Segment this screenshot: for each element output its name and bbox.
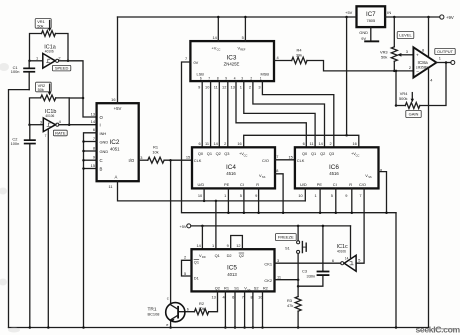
svg-text:5: 5 — [184, 271, 186, 276]
wire VR2 feedback loop — [30, 98, 41, 125]
svg-text:IC3: IC3 — [227, 54, 237, 61]
svg-text:5: 5 — [358, 258, 360, 263]
svg-text:6: 6 — [93, 127, 95, 132]
wire IC2 pin 15 — [84, 168, 97, 170]
svg-text:Q2: Q2 — [216, 151, 221, 156]
svg-text:10: 10 — [298, 193, 303, 198]
svg-text:CLK: CLK — [297, 158, 305, 163]
node S1 +5V tap — [297, 225, 300, 228]
potentiometer VR3 — [393, 17, 395, 47]
wire R1 to IC4 CLK — [164, 159, 192, 161]
wire C1 to 0V rail — [9, 90, 30, 328]
svg-text:8: 8 — [217, 77, 219, 81]
wire IC5 Q2 to R2 resistor — [209, 291, 218, 311]
svg-text:3: 3 — [258, 84, 260, 89]
op-amp U3 IC1c inverter — [344, 255, 356, 271]
svg-text:R1: R1 — [224, 286, 229, 291]
svg-text:2: 2 — [250, 77, 252, 81]
svg-text:500k: 500k — [399, 96, 407, 101]
svg-text:6: 6 — [232, 295, 234, 300]
wire S1 to freeze node — [297, 254, 299, 297]
svg-text:14: 14 — [318, 141, 323, 146]
wire DAC bit3 IC3 to IC4 Q2 — [218, 81, 220, 147]
svg-text:1: 1 — [36, 56, 38, 61]
wire IC2 pin 9 — [84, 159, 97, 161]
svg-text:10k: 10k — [152, 150, 158, 155]
svg-text:330n: 330n — [307, 274, 316, 279]
node C2 rail junction — [29, 326, 32, 329]
node CLK freeze junction — [169, 159, 172, 162]
OUTPUT label — [435, 48, 455, 54]
wire IC1a output branch to VR2 top — [69, 97, 83, 99]
svg-text:15: 15 — [186, 154, 190, 159]
svg-text:50k: 50k — [37, 23, 43, 28]
svg-text:1: 1 — [439, 55, 441, 60]
svg-text:6: 6 — [200, 77, 202, 81]
terminal output socket — [451, 61, 455, 65]
svg-text:+5V: +5V — [179, 224, 186, 229]
svg-text:100n: 100n — [11, 69, 20, 74]
svg-text:IN: IN — [387, 10, 391, 15]
wire TR1 emitter to 0V — [170, 322, 172, 328]
svg-text:S1: S1 — [285, 246, 290, 251]
scan smudges — [0, 63, 20, 333]
svg-text:14: 14 — [345, 256, 349, 260]
wire VR1 feedback loop — [30, 34, 42, 61]
wire IC5 CK1 to IC1c output — [275, 262, 341, 264]
svg-text:CK1: CK1 — [264, 261, 272, 266]
svg-text:Q3: Q3 — [329, 151, 334, 156]
wire IC3 pin 7 to ground bus — [182, 62, 397, 213]
VR1 wiper arrow — [49, 21, 51, 30]
svg-text:39k: 39k — [296, 52, 302, 57]
svg-text:LSB: LSB — [197, 72, 205, 77]
wire IC7 output down to counters — [346, 17, 348, 135]
VR1 resistance element — [42, 31, 56, 37]
node IC1a input junction — [28, 60, 31, 63]
svg-text:2: 2 — [224, 141, 226, 146]
wire +5V rail to IC2 pin 16 — [117, 17, 119, 103]
wire R4 to IC8a pin 2 summing line — [307, 61, 413, 71]
svg-text:R3: R3 — [287, 298, 292, 303]
svg-text:SS: SS — [368, 175, 372, 179]
wire IC1b input — [30, 124, 44, 126]
SPEED label — [52, 65, 70, 71]
svg-text:−: − — [416, 70, 419, 75]
svg-text:40106: 40106 — [337, 250, 346, 254]
svg-text:Q2: Q2 — [320, 151, 325, 156]
wire +5V to IC1c pin 14 — [350, 226, 352, 258]
svg-text:GND: GND — [100, 149, 109, 154]
svg-text:CC: CC — [217, 48, 221, 52]
wire IC6 UD pin 10 — [304, 188, 306, 201]
svg-text:R: R — [256, 182, 259, 187]
wire DAC bit8 IC3 to IC6 Q3 — [262, 81, 333, 147]
svg-text:7805: 7805 — [366, 18, 375, 23]
svg-text:C3: C3 — [302, 269, 307, 274]
svg-text:7: 7 — [359, 193, 361, 198]
op-amp IC8a — [413, 47, 436, 77]
wire DAC bit6 IC3 to IC6 Q1 — [244, 81, 315, 147]
IC7 GND pin — [370, 27, 372, 40]
node IC2 ground rail junction — [82, 326, 85, 329]
node ground drop rail junction — [395, 326, 398, 329]
GAIN label — [406, 110, 421, 117]
wire VR4 to output feedback — [420, 63, 446, 106]
svg-text:Q1: Q1 — [194, 259, 199, 264]
wire R3 to 0V rail — [297, 311, 299, 327]
svg-text:11: 11 — [277, 274, 281, 279]
wire IC1a output to IC2 pin 13 — [59, 61, 97, 117]
svg-text:PE: PE — [317, 182, 323, 187]
svg-text:U/D: U/D — [300, 182, 307, 187]
svg-text:15: 15 — [91, 163, 95, 168]
svg-text:ZN425E: ZN425E — [224, 61, 240, 66]
svg-text:CI: CI — [333, 182, 337, 187]
svg-text:4: 4 — [59, 119, 62, 124]
svg-text:B: B — [100, 167, 103, 172]
wire summing node to VR4 — [395, 71, 397, 106]
potentiometer VR4 — [405, 103, 420, 109]
LEVEL label — [397, 32, 414, 39]
wire IC3 pin 4 to R4 — [274, 60, 292, 62]
svg-text:1: 1 — [260, 77, 262, 81]
svg-text:C/O: C/O — [359, 182, 366, 187]
flip-flop IC5 box — [192, 249, 275, 291]
wire IC6 PE to ground bus — [319, 188, 321, 212]
svg-text:10k: 10k — [198, 306, 204, 311]
svg-text:50k: 50k — [38, 87, 44, 92]
svg-text:SPEED: SPEED — [55, 66, 69, 71]
wire R2 to TR1 base — [179, 311, 195, 313]
node IC1b input junction — [28, 123, 31, 126]
svg-text:14: 14 — [212, 35, 217, 40]
wire +5V top rail — [118, 16, 347, 18]
wire IC3 pin 14 to +5V rail — [217, 17, 219, 41]
node IC1b pin7 rail junction — [47, 326, 50, 329]
svg-text:9: 9 — [345, 193, 347, 198]
resistor R1 — [148, 157, 164, 163]
VR4 wiper arrow — [411, 93, 413, 100]
wire IC5 R2 to 0V — [262, 291, 264, 327]
wire IC6 R to ground bus — [351, 188, 353, 212]
svg-text:R2: R2 — [199, 301, 204, 306]
svg-text:11: 11 — [205, 141, 209, 146]
svg-text:Q2: Q2 — [215, 286, 220, 291]
svg-text:SS: SS — [247, 288, 251, 292]
wire IC5 Q1 to UD line — [215, 201, 217, 249]
svg-text:Q0: Q0 — [198, 151, 204, 156]
wire IC6 Vss to ground bus — [379, 172, 387, 213]
svg-text:3: 3 — [40, 119, 42, 124]
FREEZE label — [275, 234, 296, 241]
svg-text:100n: 100n — [11, 141, 20, 146]
svg-text:14: 14 — [91, 119, 96, 124]
svg-text:seekIC.com: seekIC.com — [416, 325, 460, 335]
wire IC2 pin A and up-down line — [118, 181, 306, 201]
wire IC8a pin 4 to 0V rail — [428, 68, 430, 327]
svg-text:+5V: +5V — [345, 10, 352, 15]
regulator IC7 box — [357, 6, 386, 27]
svg-text:8: 8 — [93, 145, 95, 150]
wire 0V bottom rail — [9, 327, 429, 329]
svg-text:R: R — [349, 182, 352, 187]
capacitor C3 — [322, 226, 324, 271]
svg-text:7: 7 — [185, 56, 187, 61]
svg-text:C: C — [100, 158, 103, 163]
wire IC5 pin 14 Vdd — [201, 226, 203, 249]
multiplexer IC2 box — [97, 103, 139, 181]
svg-text:GND: GND — [100, 140, 109, 145]
capacitor C1 — [28, 61, 30, 68]
svg-text:10: 10 — [198, 193, 203, 198]
svg-text:R2: R2 — [263, 286, 268, 291]
svg-text:12: 12 — [236, 243, 240, 248]
node freeze C3 bottom junction — [297, 285, 300, 288]
potentiometer VR2 label — [36, 82, 52, 92]
svg-text:D2: D2 — [227, 253, 232, 258]
svg-text:D1: D1 — [194, 276, 199, 281]
node summing junction — [395, 70, 398, 73]
svg-text:13: 13 — [230, 84, 234, 89]
svg-text:7: 7 — [93, 136, 95, 141]
svg-text:S2: S2 — [254, 286, 259, 291]
svg-text:13: 13 — [91, 111, 95, 116]
wire +5V to S1 — [297, 226, 299, 241]
svg-text:4013: 4013 — [227, 272, 237, 277]
node UD junction IC5 Q1 — [215, 200, 218, 203]
svg-text:Q0: Q0 — [302, 151, 308, 156]
svg-text:GND: GND — [359, 30, 368, 35]
svg-text:PE: PE — [224, 182, 230, 187]
svg-text:4051: 4051 — [110, 146, 120, 151]
wire IC5 S2 to 0V — [252, 291, 254, 327]
svg-text:2: 2 — [409, 65, 411, 70]
VR3 wiper to IC8a pin 3 — [397, 53, 401, 57]
node VR3 top tap — [393, 16, 396, 19]
node IC5 Vdd tap — [201, 225, 204, 228]
svg-text:MSB: MSB — [261, 72, 270, 77]
terminal +9V supply — [440, 15, 444, 19]
svg-text:14: 14 — [196, 243, 201, 248]
svg-text:GAIN: GAIN — [409, 111, 419, 116]
capacitor C2 — [29, 125, 31, 139]
svg-text:7: 7 — [276, 154, 278, 159]
wire DAC bit4 IC3 to IC4 Q3 — [227, 81, 229, 147]
wire IC4 UD pin 10 — [203, 188, 205, 201]
wire IC3 pin 5 to +5V rail — [244, 17, 246, 41]
svg-text:BC108: BC108 — [148, 312, 160, 317]
svg-text:2: 2 — [58, 55, 60, 60]
svg-text:I/O: I/O — [129, 158, 135, 163]
svg-text:S1: S1 — [234, 286, 239, 291]
svg-text:Q1: Q1 — [215, 253, 220, 258]
svg-text:2: 2 — [184, 255, 186, 260]
svg-text:11: 11 — [310, 141, 314, 146]
svg-text:FREEZE: FREEZE — [278, 235, 294, 240]
svg-text:IC6: IC6 — [329, 164, 339, 171]
counter IC6 box — [295, 147, 379, 188]
wire IC5 CK2 to freeze node — [275, 279, 299, 281]
wire IC5 R1 to 0V — [224, 291, 226, 327]
wire IC4 R to ground bus — [258, 188, 260, 212]
svg-text:7: 7 — [45, 134, 47, 138]
svg-text:REF: REF — [240, 48, 246, 52]
svg-text:16: 16 — [111, 97, 115, 102]
svg-text:+9V: +9V — [446, 15, 454, 20]
VR2 wiper arrow — [49, 84, 51, 93]
svg-text:5: 5 — [240, 193, 242, 198]
svg-text:11: 11 — [108, 184, 112, 189]
svg-text:16: 16 — [352, 141, 356, 146]
svg-text:CC: CC — [244, 153, 248, 157]
node IC1a output junction — [67, 60, 70, 63]
svg-text:47k: 47k — [287, 303, 293, 308]
wire +5V supply line — [191, 225, 351, 227]
svg-text:CLK: CLK — [194, 158, 202, 163]
svg-text:5: 5 — [242, 35, 244, 40]
svg-text:IC4: IC4 — [226, 164, 236, 171]
svg-text:RATE: RATE — [55, 130, 66, 135]
svg-text:4516: 4516 — [226, 171, 236, 176]
transistor Q1 TR1 — [166, 303, 185, 322]
node IC8a supply tap — [427, 16, 430, 19]
svg-text:e: e — [166, 322, 168, 327]
wire IC6 CO to IC1c input — [356, 188, 364, 263]
svg-text:6: 6 — [199, 141, 201, 146]
svg-text:b: b — [187, 307, 189, 312]
svg-text:3: 3 — [406, 49, 408, 54]
wire IC5 Vss to 0V — [244, 291, 246, 327]
svg-text:14: 14 — [213, 141, 218, 146]
svg-text:IC7: IC7 — [366, 11, 376, 18]
svg-text:VR4: VR4 — [400, 91, 408, 96]
wire ground bus drop to 0V rail — [395, 213, 397, 328]
svg-text:4: 4 — [430, 77, 433, 82]
node ground bus VR4 tap — [395, 104, 398, 107]
svg-text:+: + — [416, 54, 419, 59]
switch S1 push-button — [297, 241, 300, 244]
wire IC1a input — [30, 60, 43, 62]
wire IC4 CI to ground bus — [243, 188, 245, 212]
svg-text:+5V: +5V — [114, 106, 122, 111]
svg-text:O: O — [100, 115, 104, 120]
svg-text:LM358N: LM358N — [416, 66, 429, 70]
svg-text:A: A — [115, 175, 118, 180]
svg-text:50k: 50k — [381, 55, 387, 60]
svg-text:INH: INH — [100, 131, 107, 136]
svg-text:IC8a: IC8a — [418, 60, 428, 66]
svg-text:2: 2 — [249, 84, 251, 89]
svg-text:3: 3 — [241, 77, 243, 81]
svg-text:12: 12 — [222, 84, 226, 89]
svg-text:+V: +V — [212, 45, 217, 50]
resistor R4 — [292, 57, 307, 63]
svg-text:10: 10 — [205, 84, 210, 89]
svg-text:40106: 40106 — [45, 50, 54, 54]
IC8a output wire — [436, 62, 450, 64]
svg-text:9V: 9V — [361, 36, 366, 41]
svg-text:4516: 4516 — [329, 171, 339, 176]
node VR2 top tap — [82, 97, 85, 100]
svg-text:9: 9 — [227, 243, 229, 248]
svg-text:8: 8 — [276, 168, 278, 173]
svg-text:C/O: C/O — [262, 158, 269, 163]
svg-text:VR3: VR3 — [380, 50, 388, 55]
wire DAC bit2 IC3 to IC4 Q1 — [210, 81, 212, 147]
node counters Vcc junction — [345, 134, 348, 137]
op-amp U1 IC1a inverter — [43, 53, 55, 68]
wire IC4 CO to IC6 CLK — [275, 159, 295, 161]
svg-text:LEVEL: LEVEL — [399, 33, 412, 38]
wire IC5 Q1bar D1 loop — [182, 260, 192, 276]
svg-text:Q3: Q3 — [224, 151, 229, 156]
wire +5V to counters Vcc — [244, 135, 359, 147]
svg-text:40106: 40106 — [45, 114, 54, 118]
svg-text:Q1: Q1 — [311, 151, 316, 156]
svg-text:9: 9 — [255, 193, 257, 198]
svg-text:CI: CI — [240, 182, 244, 187]
svg-text:SS: SS — [262, 175, 266, 179]
wire IC2 pin 8 — [84, 150, 97, 152]
svg-text:1: 1 — [315, 193, 317, 198]
wire IC2 INH to ground rail — [84, 133, 97, 328]
svg-text:OUTPUT: OUTPUT — [437, 49, 454, 54]
svg-text:Q1: Q1 — [207, 151, 212, 156]
node IC1b output junction — [68, 123, 71, 126]
svg-text:3: 3 — [140, 155, 142, 160]
svg-text:I: I — [100, 123, 101, 128]
potentiometer VR1 label — [35, 19, 51, 29]
svg-text:9: 9 — [198, 84, 200, 89]
svg-text:IC5: IC5 — [227, 264, 237, 271]
wire DAC bit7 IC3 to IC6 Q2 — [253, 81, 325, 147]
svg-text:R4: R4 — [297, 47, 303, 52]
wire TR1 collector to clock line — [170, 160, 172, 303]
wire IC5 D2 Q2bar loop — [231, 236, 243, 250]
wire DAC bit1 IC3 to IC4 Q0 — [201, 81, 203, 147]
svg-text:IC1c: IC1c — [337, 244, 348, 250]
wire IC2 pin 7 — [84, 141, 97, 143]
svg-text:6: 6 — [332, 258, 334, 263]
svg-text:13: 13 — [211, 295, 215, 300]
resistor R2 — [194, 309, 208, 315]
svg-text:1: 1 — [240, 84, 242, 89]
op-amp U2 IC1b inverter — [43, 118, 55, 132]
wire IC8a pin 8 supply — [428, 17, 430, 57]
svg-text:Q2: Q2 — [239, 253, 244, 258]
svg-text:8: 8 — [422, 47, 424, 52]
wire IC4 Vss to ground bus — [275, 174, 283, 213]
svg-text:16: 16 — [237, 141, 241, 146]
svg-text:4: 4 — [277, 55, 280, 60]
svg-text:CC: CC — [356, 153, 360, 157]
svg-text:4: 4 — [234, 77, 236, 81]
wire IC7 input from 9V — [385, 16, 440, 18]
svg-text:9: 9 — [225, 77, 227, 81]
svg-text:7: 7 — [208, 77, 210, 81]
wire IC4 PE to ground bus — [227, 188, 229, 212]
svg-text:11: 11 — [214, 84, 218, 89]
svg-text:15: 15 — [288, 154, 292, 159]
svg-text:1: 1 — [212, 243, 214, 248]
VR2 resistance element — [41, 95, 56, 101]
svg-text:CK2: CK2 — [264, 278, 272, 283]
svg-text:1: 1 — [224, 193, 226, 198]
svg-text:5: 5 — [331, 193, 333, 198]
svg-text:0V: 0V — [194, 60, 199, 65]
svg-text:c: c — [167, 295, 169, 300]
